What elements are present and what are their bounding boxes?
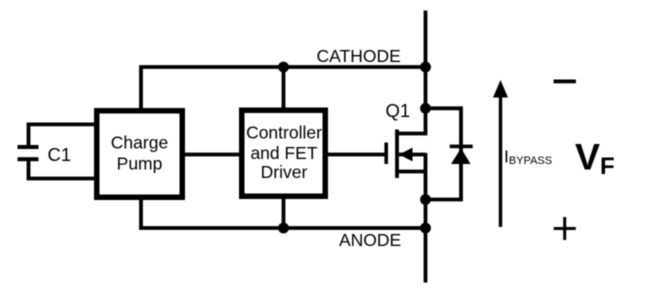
wire: C1 top lead and loop to Charge Pump left (pin 1): [29, 124, 95, 145]
drain connection: [397, 132, 426, 136]
wire: bypass diode branch loop: [426, 108, 462, 199]
transistor Q1 (MOSFET): [386, 130, 425, 179]
current arrow I_BYPASS: [493, 80, 508, 227]
wire: Controller bottom stub: [282, 196, 286, 228]
wire: main vertical cathode branch (top lead to Q1 drain): [424, 11, 428, 136]
polarity plus sign: [554, 217, 576, 240]
junction dot: Q1 drain / bypass diode top: [420, 103, 431, 114]
source connection: [397, 170, 426, 174]
svg-text:Charge: Charge: [111, 133, 168, 153]
wire: CATHODE net top rail with corner down to Charge Pump top: [141, 67, 426, 112]
junction dot: cathode rail / main vertical: [420, 62, 431, 73]
wire: ANODE net bottom rail with corner up to Charge Pump bottom: [141, 196, 426, 228]
block: Charge Pump U1: [97, 111, 183, 198]
svg-text:and FET: and FET: [250, 143, 317, 163]
junction dot: anode rail / main vertical: [420, 223, 431, 234]
svg-text:Driver: Driver: [261, 162, 308, 182]
svg-text:CATHODE: CATHODE: [317, 46, 401, 66]
wire: main vertical anode branch (Q1 source/body down to bottom lead): [424, 153, 428, 283]
junction dot: cathode rail / controller stub: [278, 62, 289, 73]
svg-text:C1: C1: [48, 144, 72, 165]
svg-text:ANODE: ANODE: [339, 230, 401, 250]
gate bar: [384, 143, 388, 165]
svg-text:Pump: Pump: [117, 154, 163, 174]
svg-text:Q1: Q1: [386, 100, 411, 121]
svg-text:Controller: Controller: [246, 122, 322, 142]
label Charge Pump: [111, 133, 168, 174]
block: Controller and FET Driver U2: [242, 110, 326, 196]
channel bar: [395, 130, 399, 179]
diode D1 (bypass): [450, 145, 473, 164]
junction dot: bypass diode bottom / source net: [420, 194, 431, 205]
wire: Charge Pump output to Controller input: [182, 153, 242, 157]
label Controller and FET Driver: [246, 122, 322, 182]
body connection: [399, 153, 426, 157]
junction dot: anode rail / controller stub: [278, 223, 289, 234]
capacitor C1: [18, 145, 39, 161]
body arrow: [399, 148, 413, 162]
wire: Controller top stub: [282, 67, 286, 112]
wire: C1 bottom lead and loop to Charge Pump left (pin 2): [29, 161, 95, 179]
polarity minus sign: [554, 80, 576, 84]
wire: Controller output to Q1 gate: [325, 153, 385, 157]
